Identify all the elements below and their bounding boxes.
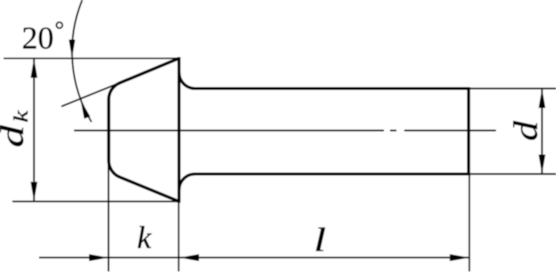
arrow k left (points right)	[89, 254, 109, 261]
arrow dk bottom	[31, 182, 38, 202]
arrow dk top	[31, 58, 38, 78]
shank bottom line	[195, 172, 469, 175]
angle dimension arc	[72, 0, 91, 122]
arrow angle at slant line	[81, 100, 91, 119]
dimension line dk	[33, 58, 35, 201]
extension l right	[468, 174, 470, 272]
svg-text:l: l	[314, 221, 326, 259]
extension d top	[468, 88, 556, 90]
shank top line	[195, 87, 469, 90]
svg-text:20: 20	[22, 20, 54, 56]
arrow l left (points left)	[180, 254, 200, 261]
fillet head-shank bottom	[179, 174, 195, 190]
extension k right / l left	[178, 201, 180, 271]
arrow d top	[539, 89, 546, 109]
rivet head outline	[109, 58, 179, 201]
svg-text:d: d	[508, 121, 545, 141]
extension d bottom	[468, 173, 556, 175]
head right face	[177, 57, 180, 203]
arrow d bottom	[539, 155, 546, 175]
shank right face	[467, 87, 470, 176]
bottom dimension line k and l	[39, 257, 470, 259]
extension line top (dk top)	[4, 57, 180, 59]
arrow l right (points right)	[450, 254, 470, 261]
dimension line d	[541, 89, 543, 175]
cone surface extension thin line	[61, 81, 125, 107]
centerline	[74, 130, 496, 132]
extension line bottom (dk bottom)	[12, 200, 179, 202]
extension k left	[108, 161, 110, 272]
svg-text:k: k	[137, 219, 152, 255]
fillet head-shank top	[179, 73, 195, 89]
arrow angle at horizontal line	[69, 40, 75, 59]
